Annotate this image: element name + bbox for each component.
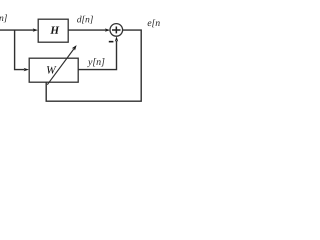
arrowhead into summer: [105, 28, 110, 31]
node y[n] label: [87, 58, 104, 67]
node d[n] label: [77, 16, 93, 24]
wire H output to summer: [68, 29, 106, 31]
wire summer output e[n] feedback loop: [46, 30, 141, 101]
label H: [50, 26, 59, 33]
block H: [38, 19, 68, 42]
wire W output y[n] to summer bottom: [78, 41, 116, 70]
minus label at summer bottom input: [109, 41, 114, 43]
arrowhead into H: [33, 28, 38, 31]
wire branch down to W input: [15, 30, 25, 70]
arrowhead up into summer: [115, 36, 118, 41]
node e[n] label (clipped at right edge): [148, 19, 164, 27]
label W: [47, 66, 57, 74]
arrowhead into W: [24, 68, 29, 71]
summer circle: [110, 24, 123, 37]
plus sign in summer: [112, 27, 121, 34]
wire input line to H: [0, 29, 34, 31]
adaptive diagonal arrow through W: [47, 49, 74, 85]
node x[n] input label (clipped at left edge): [0, 14, 7, 22]
block W adaptive: [29, 58, 78, 82]
